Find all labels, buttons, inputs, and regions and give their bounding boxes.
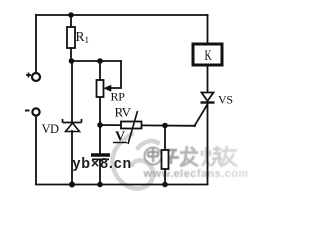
wire capacitor bottom lead bbox=[99, 160, 101, 184]
wire divider down lead bbox=[164, 126, 166, 151]
wire R1 top lead bbox=[70, 15, 72, 27]
node RP bottom bbox=[97, 122, 103, 128]
thyristor VS bbox=[201, 93, 215, 103]
RP wiper arrowhead bbox=[105, 86, 111, 91]
svg-text:K: K bbox=[205, 47, 212, 63]
watermark char 烧 bbox=[202, 146, 222, 166]
wire RV row bbox=[100, 124, 195, 127]
node divider tap bbox=[162, 123, 168, 129]
wire top rail bbox=[36, 14, 208, 16]
svg-text:VS: VS bbox=[218, 93, 233, 107]
wire capacitor top lead bbox=[99, 125, 101, 153]
diode VD (zener) bbox=[63, 119, 82, 132]
watermark char 子 bbox=[164, 150, 179, 164]
wire VD branch lower bbox=[71, 131, 73, 184]
resistor R2 bbox=[162, 150, 169, 169]
watermark char 友 bbox=[220, 146, 237, 167]
wire bottom rail bbox=[36, 184, 208, 186]
wire positive lead bbox=[35, 15, 37, 73]
wire K top lead bbox=[207, 15, 209, 43]
node RP top bbox=[97, 58, 103, 64]
svg-text:RV: RV bbox=[115, 105, 132, 120]
wire R2 bottom lead bbox=[164, 169, 166, 184]
potentiometer RP bbox=[97, 80, 104, 97]
svg-text:R1: R1 bbox=[76, 29, 90, 45]
wire VS gate lead bbox=[195, 105, 208, 126]
RV adjust diagonal bbox=[128, 111, 138, 144]
circuit drawing bbox=[36, 15, 208, 185]
wire RP top lead bbox=[99, 61, 101, 80]
relay K bbox=[193, 44, 222, 65]
wire negative lead bbox=[35, 116, 37, 184]
svg-text:www.elecfans.com: www.elecfans.com bbox=[143, 168, 249, 180]
capacitor C plates bbox=[91, 153, 110, 156]
watermark char 发 bbox=[180, 146, 198, 166]
node VD ground bbox=[69, 182, 75, 188]
svg-text:RP: RP bbox=[111, 90, 126, 104]
svg-text:VD: VD bbox=[42, 122, 60, 136]
node R1 bottom bbox=[69, 58, 75, 64]
node R1 top bbox=[68, 12, 74, 18]
watermark swirl logo bbox=[112, 134, 158, 189]
wire R1 bottom lead bbox=[70, 48, 72, 61]
node C ground bbox=[97, 182, 103, 188]
node R2 ground bbox=[162, 182, 168, 188]
wire RP wiper loop bbox=[110, 61, 121, 88]
wire VS cathode lead bbox=[207, 103, 209, 184]
watermark logo circle 电 bbox=[145, 148, 162, 165]
wire base bus bbox=[71, 60, 121, 62]
wire K to VS bbox=[207, 66, 209, 92]
terminal minus bbox=[32, 108, 39, 115]
wire RP bottom lead bbox=[99, 97, 101, 125]
svg-text:yb×8.cn: yb×8.cn bbox=[73, 156, 133, 172]
wire VD branch upper bbox=[71, 61, 73, 122]
resistor R1 bbox=[67, 27, 75, 48]
terminal plus bbox=[32, 73, 40, 81]
resistor RV bbox=[121, 122, 142, 129]
